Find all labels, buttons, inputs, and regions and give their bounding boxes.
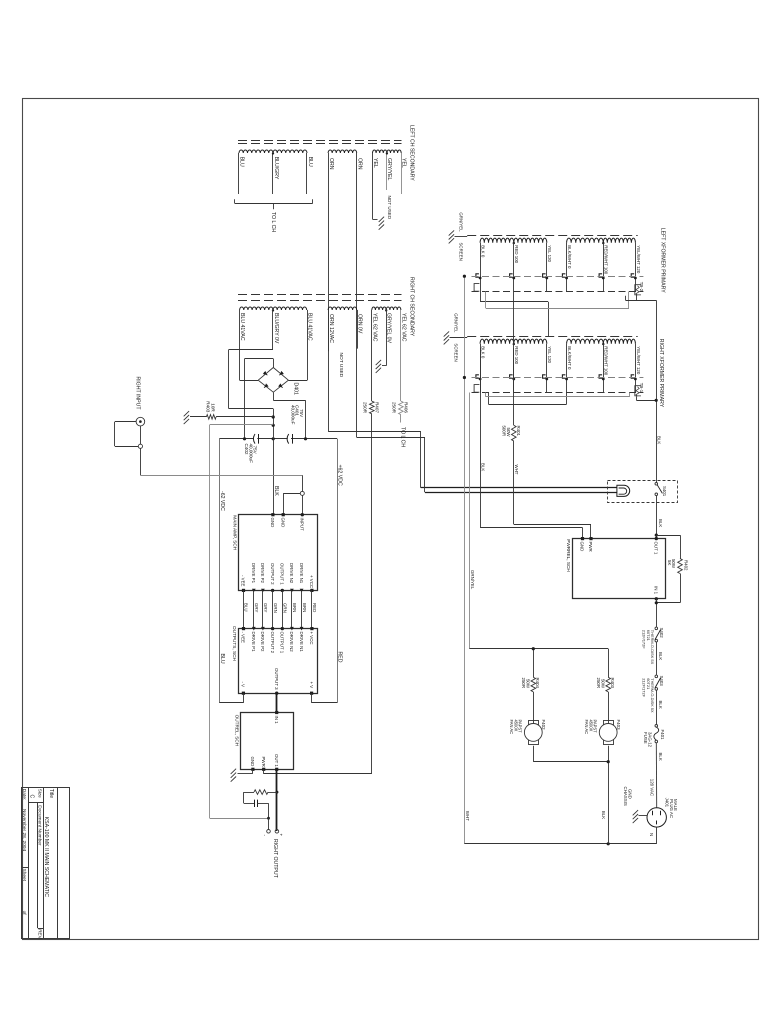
fuse F401 3AG-12 xyxy=(655,725,658,728)
svg-text:PAPST: PAPST xyxy=(593,720,598,734)
svg-text:DRIVE P2: DRIVE P2 xyxy=(260,563,265,584)
wire BLU leads xyxy=(238,153,240,194)
svg-text:BLK/WHT 0: BLK/WHT 0 xyxy=(567,346,572,370)
resistor R401 500R 50W xyxy=(513,348,515,425)
pin - VEE (main amp) xyxy=(242,589,245,592)
winding R-BLU right xyxy=(273,307,307,310)
wire BLK to relay GND xyxy=(480,348,482,528)
pin GND (pwrrel) xyxy=(581,537,584,540)
terminal strip TB-1 (dashed) xyxy=(472,377,644,379)
terminal hook xyxy=(510,274,513,277)
svg-text:R401: R401 xyxy=(516,426,521,437)
svg-text:+ VCC: + VCC xyxy=(309,632,314,645)
svg-text:OUTPUT 2: OUTPUT 2 xyxy=(270,632,275,654)
pin INPUT xyxy=(301,513,304,516)
svg-text:TO L CH: TO L CH xyxy=(399,427,405,447)
svg-text:REV: REV xyxy=(38,929,43,939)
wire ORN stubs xyxy=(328,310,330,351)
winding T-right-pri A2 xyxy=(514,339,547,344)
resistor R403 10R with ground xyxy=(184,411,189,416)
svg-text:OUTPUT 3: OUTPUT 3 xyxy=(274,668,279,690)
svg-text:SCREEN: SCREEN xyxy=(453,343,458,361)
svg-text:GND: GND xyxy=(270,518,275,528)
svg-text:YEL 120: YEL 120 xyxy=(547,346,552,363)
svg-text:YEL: YEL xyxy=(372,158,378,168)
svg-text:BLK: BLK xyxy=(658,753,663,761)
svg-text:GRY: GRY xyxy=(263,603,268,613)
svg-text:PAPST: PAPST xyxy=(518,720,523,734)
svg-text:RED/WHT 100: RED/WHT 100 xyxy=(604,346,609,376)
connector TB-2 xyxy=(635,285,641,295)
svg-text:Sheet: Sheet xyxy=(21,869,27,882)
wire via to INPUT pin xyxy=(302,495,304,514)
block U-outputs OUTPUTS SCH xyxy=(239,629,318,694)
wire bridge plus to cap bus xyxy=(273,392,275,400)
winding T-right-pri B2 xyxy=(603,339,635,344)
svg-text:DRIVE N1: DRIVE N1 xyxy=(299,632,304,653)
svg-text:+62 VDC: +62 VDC xyxy=(336,465,342,486)
winding R-YEL left xyxy=(372,307,386,310)
wire primary tap RED 100 xyxy=(513,344,515,393)
svg-text:BLK: BLK xyxy=(481,463,486,471)
svg-text:RED/WHT 100: RED/WHT 100 xyxy=(604,245,609,275)
zobel resistor xyxy=(254,790,268,795)
wire primary tap BLK/WHT 0 xyxy=(566,344,568,393)
svg-text:OUTPUT 2: OUTPUT 2 xyxy=(270,563,275,585)
svg-text:R404: R404 xyxy=(535,678,540,689)
svg-text:DRIVE P1: DRIVE P1 xyxy=(251,563,256,584)
ground right-ch gry/yel xyxy=(386,310,388,366)
pin OUT 1 xyxy=(275,768,278,771)
svg-text:OUTPUTS, SCH: OUTPUTS, SCH xyxy=(232,626,237,661)
svg-text:75V: 75V xyxy=(299,409,304,418)
wire BLU interconnect xyxy=(243,590,245,628)
svg-text:75V: 75V xyxy=(253,446,258,455)
ground left-ch yel xyxy=(373,219,378,221)
pin OUTPUT 2 (outputs) xyxy=(271,627,274,630)
svg-text:TO L CH: TO L CH xyxy=(270,212,276,232)
svg-text:IN 1: IN 1 xyxy=(654,586,659,595)
svg-text:GRN: GRN xyxy=(283,603,288,613)
node input via xyxy=(300,491,304,495)
rail +62VDC xyxy=(337,439,339,703)
fan F403 xyxy=(604,721,614,726)
svg-text:DRIVE P1: DRIVE P1 xyxy=(251,632,256,653)
svg-text:OUTREL, SCH: OUTREL, SCH xyxy=(235,715,240,747)
svg-text:ORN 12VAC: ORN 12VAC xyxy=(328,314,334,343)
svg-text:-62 VDC: -62 VDC xyxy=(219,491,225,511)
wire V+ to +62 rail xyxy=(311,693,313,703)
resistor R404 250R 50W xyxy=(531,677,536,692)
wire primary tap RED/WHT 100 xyxy=(603,344,605,393)
wire bridge minus to cap bus xyxy=(273,359,275,368)
svg-text:250R: 250R xyxy=(521,678,526,689)
svg-text:GRY/YEL: GRY/YEL xyxy=(386,158,392,181)
svg-text:GND: GND xyxy=(627,789,632,799)
svg-text:GRN/YEL: GRN/YEL xyxy=(470,570,475,590)
svg-text:BLU/GRY: BLU/GRY xyxy=(273,157,279,180)
wire OUTPUT 3 to relay xyxy=(276,693,278,711)
capacitor C401 40,000uF 75V xyxy=(287,434,289,444)
thermal switch S402 xyxy=(655,627,658,630)
wire relay IN1 to S402 xyxy=(656,599,658,627)
svg-text:THERM-O-DISK 5X: THERM-O-DISK 5X xyxy=(650,630,655,665)
svg-text:YEL 62 VAC: YEL 62 VAC xyxy=(371,313,377,342)
wire RED interconnect xyxy=(311,590,313,628)
svg-text:OUT 1: OUT 1 xyxy=(274,754,279,767)
wire ORN to pilot lamp S401 (lead 2) xyxy=(356,153,358,437)
svg-text:GND: GND xyxy=(580,542,585,552)
svg-text:YEL/WHT 120: YEL/WHT 120 xyxy=(636,245,641,274)
winding R-YEL right xyxy=(386,307,401,310)
svg-text:BLK 0: BLK 0 xyxy=(481,245,486,258)
wire primary tap BLK 0 xyxy=(480,344,482,393)
terminal hook xyxy=(543,375,546,378)
pin OUTPUT 3 xyxy=(275,692,278,695)
svg-text:YEL/WHT 120: YEL/WHT 120 xyxy=(636,346,641,375)
wire fan B return to neutral xyxy=(608,692,610,723)
wire GRY interconnect xyxy=(253,590,255,628)
connector RCA right input xyxy=(136,417,145,426)
svg-text:Title: Title xyxy=(48,789,54,798)
svg-text:D401: D401 xyxy=(292,383,298,396)
terminal mark tb-left-end xyxy=(474,284,479,292)
block U-pwrrel PWRREL SCH xyxy=(573,539,666,599)
pin GND xyxy=(282,513,285,516)
terminal hook xyxy=(562,375,565,378)
svg-text:RED 100: RED 100 xyxy=(514,346,519,364)
block U-main-amp MAIN AMP SCH xyxy=(239,515,318,591)
svg-text:10R: 10R xyxy=(210,403,215,412)
winding R-BLU left xyxy=(240,307,273,310)
svg-text:-: - xyxy=(263,835,268,837)
svg-text:NOT USED: NOT USED xyxy=(387,196,392,220)
svg-text:DRIVE P2: DRIVE P2 xyxy=(260,632,265,653)
pin + VCC (outputs) xyxy=(310,627,313,630)
transformer T-left-ch core (dashed) xyxy=(238,140,402,142)
pin - VEE (outputs) xyxy=(242,627,245,630)
wire primary tap YEL 120 xyxy=(546,243,548,292)
svg-text:ORN: ORN xyxy=(356,158,362,170)
transformer T-right-ch core (dashed) xyxy=(238,294,402,296)
wire BRN interconnect xyxy=(301,590,303,628)
pin + VCC (main amp) xyxy=(310,589,313,592)
winding L-BLU left xyxy=(239,150,273,153)
terminal - right output xyxy=(267,830,271,834)
svg-text:MALE: MALE xyxy=(673,799,678,811)
wire switch to relay OUT 1 xyxy=(656,496,658,539)
resistor R406 250R to left channel xyxy=(400,310,402,401)
svg-text:BLU 41VAC: BLU 41VAC xyxy=(239,313,245,341)
thermal switch S403 xyxy=(655,675,658,678)
wire jumper right-pri line xyxy=(485,393,487,397)
pin V+ (outputs) xyxy=(310,692,313,695)
pin DRIVE N2 (outputs) xyxy=(290,627,294,631)
wire jumper left-pri 0-120 xyxy=(480,292,482,302)
svg-text:50W: 50W xyxy=(506,428,511,438)
svg-text:YEL 62 VAC: YEL 62 VAC xyxy=(400,313,406,342)
pin GND (outrel) xyxy=(251,768,254,771)
svg-text:GND: GND xyxy=(250,757,255,767)
svg-text:LEFT CH SECONDARY: LEFT CH SECONDARY xyxy=(409,125,415,181)
svg-text:GRN: GRN xyxy=(273,603,278,613)
border frame xyxy=(23,99,759,940)
wire F401 to plug xyxy=(655,743,657,808)
pin PWR (outrel) xyxy=(262,768,265,771)
wire primary tap YEL/WHT 120 xyxy=(635,243,637,292)
pin DRIVE N1 (main amp) xyxy=(300,589,304,593)
wire BLU-right to bridge AC2 xyxy=(307,310,309,380)
svg-text:3AG-12: 3AG-12 xyxy=(648,732,653,748)
svg-text:BLU: BLU xyxy=(307,157,313,167)
svg-text:Document Number: Document Number xyxy=(37,805,43,846)
svg-text:BLK: BLK xyxy=(273,486,279,496)
wire plug neutral return xyxy=(656,827,658,844)
svg-text:R406: R406 xyxy=(404,402,409,413)
svg-text:GRY: GRY xyxy=(254,603,259,613)
svg-text:250R: 250R xyxy=(596,678,601,689)
svg-text:F401: F401 xyxy=(660,730,665,741)
wire primary tap YEL/WHT 120 xyxy=(635,344,637,393)
wire primary tap RED/WHT 100 xyxy=(603,243,605,292)
svg-text:Size: Size xyxy=(38,789,43,798)
wire fan branch A xyxy=(533,649,535,678)
wire signal-ground branch xyxy=(210,424,274,426)
svg-text:+: + xyxy=(279,834,284,837)
wire fan feed xyxy=(469,393,471,649)
svg-text:S401: S401 xyxy=(662,486,667,497)
svg-text:YEL 120: YEL 120 xyxy=(547,245,552,262)
svg-text:THERM-O-DISK 5X: THERM-O-DISK 5X xyxy=(650,678,655,713)
svg-text:RIGHT INPUT: RIGHT INPUT xyxy=(135,377,141,411)
svg-text:BLK: BLK xyxy=(601,811,606,819)
terminal strip TB-2 (dashed) xyxy=(472,276,644,278)
svg-text:250R: 250R xyxy=(392,402,397,414)
pin IN 1 xyxy=(275,711,278,714)
wire BRN interconnect xyxy=(291,590,293,628)
terminal hook xyxy=(631,274,634,277)
terminal hook xyxy=(599,274,602,277)
switch S401 contacts xyxy=(655,483,658,486)
rail -62VDC xyxy=(219,439,221,703)
wire YEL leads xyxy=(372,153,374,219)
wire capacitor bus xyxy=(219,438,254,440)
pin OUTPUT 1 (main amp) xyxy=(281,589,284,592)
svg-text:RIGHT CH SECONDARY: RIGHT CH SECONDARY xyxy=(409,277,415,337)
terminal hook xyxy=(476,274,479,277)
terminal hook xyxy=(562,274,565,277)
svg-text:ORN 0V: ORN 0V xyxy=(357,314,363,334)
svg-text:DRIVE N1: DRIVE N1 xyxy=(299,563,304,584)
terminal hook xyxy=(599,375,602,378)
winding L-BLU right xyxy=(273,150,307,153)
pin DRIVE P2 (outputs) xyxy=(261,627,265,631)
svg-text:BRN: BRN xyxy=(302,603,307,612)
winding T-left-pri A1 xyxy=(480,238,514,243)
svg-text:F403: F403 xyxy=(616,720,621,731)
svg-text:BLU: BLU xyxy=(244,603,249,612)
svg-text:120 VAC: 120 VAC xyxy=(650,779,655,796)
svg-text:R403: R403 xyxy=(205,401,210,412)
wire R403 to gnd node xyxy=(216,416,273,418)
svg-text:NOT USED: NOT USED xyxy=(338,353,344,378)
wire V- to -62 rail xyxy=(243,693,245,703)
wire fan branch B xyxy=(608,649,610,678)
svg-text:+ VCC: + VCC xyxy=(309,575,314,588)
svg-text:S402: S402 xyxy=(659,628,664,639)
wire ORN to pilot lamp S401 (lead 1) xyxy=(328,153,330,431)
transformer T-left-pri core (dashed) xyxy=(467,235,638,237)
terminal hook xyxy=(543,274,546,277)
pin DRIVE P2 (main amp) xyxy=(261,589,265,593)
svg-text:50W: 50W xyxy=(600,679,605,689)
svg-text:FUSE: FUSE xyxy=(643,732,648,744)
pin DRIVE P1 (outputs) xyxy=(252,627,256,631)
svg-text:SCREEN: SCREEN xyxy=(458,243,463,261)
wire fan A return xyxy=(533,677,535,679)
wire GRN interconnect xyxy=(272,590,274,628)
svg-text:of: of xyxy=(21,911,27,916)
wire primary tap YEL 120 xyxy=(546,344,548,393)
wire jumper right-pri 0-0 xyxy=(488,393,490,405)
fan F402 xyxy=(529,721,539,726)
svg-text:CHASSIS: CHASSIS xyxy=(623,787,628,806)
winding T-right-pri B1 xyxy=(567,339,604,344)
svg-text:WHT: WHT xyxy=(465,811,470,821)
svg-text:BLU: BLU xyxy=(239,157,245,167)
svg-text:RED: RED xyxy=(312,603,317,612)
terminal hook xyxy=(631,375,634,378)
wire center-tap ground return xyxy=(272,310,274,349)
svg-text:R407: R407 xyxy=(375,402,380,413)
wire BLK mains hot xyxy=(656,300,658,483)
svg-text:OUTPUT 1: OUTPUT 1 xyxy=(280,563,285,585)
wire BLU-left to bridge AC1 xyxy=(239,310,241,380)
winding R-ORN xyxy=(328,307,357,310)
pin DRIVE N2 (main amp) xyxy=(290,589,294,593)
winding L-ORN xyxy=(328,150,357,153)
wire OUT 1 output xyxy=(276,769,278,831)
bridge rectifier D401 xyxy=(258,368,273,381)
winding L-YEL right xyxy=(387,150,401,153)
resistor R402 5K 50W bypass xyxy=(656,535,680,537)
svg-text:- VEE: - VEE xyxy=(241,575,246,587)
pin PWR (pwrrel) xyxy=(589,537,592,540)
pin GND xyxy=(271,513,274,516)
svg-text:250R: 250R xyxy=(362,402,367,414)
svg-text:INPUT: INPUT xyxy=(300,518,305,531)
terminal hook xyxy=(510,375,513,378)
svg-text:BLK 0: BLK 0 xyxy=(481,346,486,359)
svg-text:WHT: WHT xyxy=(514,465,519,475)
pin DRIVE P1 (main amp) xyxy=(252,589,256,593)
svg-text:- VEE: - VEE xyxy=(241,632,246,644)
winding T-left-pri B2 xyxy=(603,238,635,243)
pin DRIVE N1 (outputs) xyxy=(300,627,304,631)
switch S401 enclosure (dashed) xyxy=(608,481,678,503)
transformer T-right-pri core (dashed) xyxy=(467,336,638,338)
wire left-pri TB-2 to switch feed xyxy=(636,295,638,301)
svg-text:GRN/YEL: GRN/YEL xyxy=(458,212,463,232)
terminal hook xyxy=(476,375,479,378)
wire screen/WHT neutral xyxy=(464,276,466,844)
svg-text:LEFT XFORMER PRIMARY: LEFT XFORMER PRIMARY xyxy=(659,228,665,293)
svg-text:TB-1: TB-1 xyxy=(639,383,644,393)
pilot lamp xyxy=(617,485,630,496)
pin OUT 1 (pwrrel) xyxy=(655,537,658,540)
ground outrel xyxy=(252,769,254,773)
svg-text:R402: R402 xyxy=(684,560,689,571)
svg-text:BLK/WHT 0: BLK/WHT 0 xyxy=(567,245,572,269)
svg-text:RED 100: RED 100 xyxy=(514,245,519,263)
capacitor C402 40,000uF 75V xyxy=(253,434,255,444)
bracket TO L CH xyxy=(235,203,313,205)
pin OUTPUT 2 (main amp) xyxy=(271,589,274,592)
svg-text:PWR: PWR xyxy=(588,542,593,552)
svg-text:BLU: BLU xyxy=(219,654,225,664)
svg-text:KSA-100 MK II MAIN SCHEMATIC: KSA-100 MK II MAIN SCHEMATIC xyxy=(43,817,49,898)
svg-text:+ V: + V xyxy=(309,682,314,689)
wire ground return to - terminal xyxy=(210,818,269,820)
svg-text:BLK: BLK xyxy=(657,436,662,444)
svg-text:OUT 1: OUT 1 xyxy=(654,542,659,555)
wire primary tap BLK 0 xyxy=(480,243,482,292)
zobel capacitor xyxy=(244,803,254,805)
svg-text:November 28, 2004: November 28, 2004 xyxy=(21,809,27,851)
pin V- (outputs) xyxy=(242,692,245,695)
svg-text:- V: - V xyxy=(241,682,246,688)
svg-text:PWR: PWR xyxy=(261,757,266,767)
winding T-left-pri A2 xyxy=(514,238,547,243)
svg-text:GRN/YEL: GRN/YEL xyxy=(453,313,458,333)
svg-text:C: C xyxy=(28,795,34,799)
svg-text:RED: RED xyxy=(337,652,343,663)
block U-outrel OUTREL SCH xyxy=(241,713,294,770)
svg-text:GND: GND xyxy=(281,518,286,528)
svg-text:BRN: BRN xyxy=(292,603,297,612)
winding T-right-pri A1 xyxy=(480,339,514,344)
svg-text:MAIN AMP, SCH: MAIN AMP, SCH xyxy=(232,515,237,550)
svg-text:S403: S403 xyxy=(659,676,664,687)
svg-text:BLK: BLK xyxy=(658,519,663,527)
svg-text:50W: 50W xyxy=(671,559,676,569)
wire PWR from R407 62VAC xyxy=(263,769,265,774)
svg-text:N: N xyxy=(649,833,654,836)
wire primary tap RED 100 xyxy=(513,243,515,292)
svg-text:DRIVE N2: DRIVE N2 xyxy=(289,632,294,653)
resistor R407 250R xyxy=(371,310,373,401)
svg-text:50W: 50W xyxy=(525,679,530,689)
pin IN 1 (pwrrel) xyxy=(655,597,658,600)
svg-text:OUTPUT 1: OUTPUT 1 xyxy=(280,632,285,654)
wire primary tap BLK/WHT 0 xyxy=(566,243,568,292)
winding T-left-pri B1 xyxy=(567,238,604,243)
svg-text:BLK: BLK xyxy=(658,652,663,660)
terminal + right output xyxy=(275,830,279,834)
wire S402-S403 xyxy=(656,642,658,675)
svg-text:BLK: BLK xyxy=(658,701,663,709)
wire GRY interconnect xyxy=(262,590,264,628)
svg-text:YEL: YEL xyxy=(401,158,407,168)
svg-text:RIGHT XFORMER PRIMARY: RIGHT XFORMER PRIMARY xyxy=(658,339,664,408)
svg-text:R403: R403 xyxy=(610,678,615,689)
svg-text:DRIVE N2: DRIVE N2 xyxy=(289,563,294,584)
winding L-YEL left xyxy=(373,150,387,153)
wire input signal xyxy=(140,426,142,444)
wire right-pri TB-1 link xyxy=(636,396,638,400)
svg-text:IN 1: IN 1 xyxy=(274,716,279,725)
terminal mark tb-left-end xyxy=(474,385,479,393)
